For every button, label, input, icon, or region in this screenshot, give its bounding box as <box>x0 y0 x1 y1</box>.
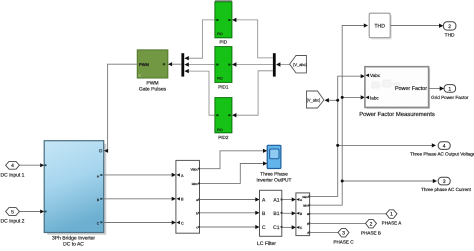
svg-text:B1: B1 <box>273 211 279 217</box>
svg-text:1: 1 <box>448 87 451 93</box>
wire: block2 Iabc up (V2) to THD, branches to PF Iabc and outport 3 <box>310 26 434 206</box>
wire: From V_abc to demux <box>280 64 290 66</box>
block: Three-Phase V-I Measurement 2 <box>296 193 310 236</box>
svg-text:THD: THD <box>445 33 455 39</box>
svg-text:Inverter OutPUT: Inverter OutPUT <box>257 178 292 184</box>
svg-text:2: 2 <box>448 24 451 30</box>
svg-text:a: a <box>196 198 198 202</box>
demux (black bar) <box>273 53 276 76</box>
svg-text:1: 1 <box>390 212 393 218</box>
svg-text:5: 5 <box>11 209 14 215</box>
junction dots on V2 <box>341 96 344 99</box>
block: PWM Gate Pulses <box>137 50 168 93</box>
svg-text:Gate Pulses: Gate Pulses <box>139 87 167 93</box>
svg-text:LC Filter: LC Filter <box>257 241 276 247</box>
block: Power Factor Measurements <box>359 67 435 119</box>
svg-text:Iabc: Iabc <box>303 204 309 208</box>
block: THD <box>369 13 392 39</box>
wire: THD to outport 2 <box>390 25 439 27</box>
svg-text:B: B <box>97 198 99 202</box>
outport hexagon 1 (PHASE A) <box>382 210 403 226</box>
wires: inverter A,B,C to measurement block 1 <box>104 175 173 223</box>
svg-text:PID: PID <box>217 32 223 36</box>
svg-text:C: C <box>181 221 184 225</box>
svg-text:Three phase AC Current: Three phase AC Current <box>421 187 472 192</box>
wire: PID2 out to mux in 3 <box>188 71 215 115</box>
svg-text:Vabc: Vabc <box>370 73 381 78</box>
wire: PID out to mux in 1 <box>188 20 215 58</box>
svg-text:PID1: PID1 <box>218 85 229 90</box>
svg-text:[V_abc]: [V_abc] <box>307 98 321 103</box>
wires: block2 a,b,c to phase hexagons <box>310 214 387 233</box>
svg-text:3: 3 <box>443 179 446 185</box>
svg-text:PID2: PID2 <box>218 135 229 140</box>
svg-text:4: 4 <box>443 144 446 150</box>
wire: Vabc branch to Goto tag <box>328 99 338 101</box>
wire: demux out1 to PID input <box>236 20 273 58</box>
wire: mux output to PWM input <box>171 63 181 65</box>
wires: block1 a,b,c to LC Filter <box>200 200 257 228</box>
block: LC Filter <box>257 190 283 247</box>
block: Three-Phase V-I Measurement 1 <box>176 160 200 233</box>
svg-text:Power Factor Measurements: Power Factor Measurements <box>359 111 435 118</box>
outport 1 (Grid Power Factor) <box>431 85 469 101</box>
Goto tag [V_abc] <box>307 91 324 108</box>
svg-text:A1: A1 <box>273 198 279 204</box>
outport hexagon 3 (PHASE C) <box>333 228 354 244</box>
svg-text:PID: PID <box>217 128 223 132</box>
svg-text:2: 2 <box>370 221 373 227</box>
svg-text:PID: PID <box>217 77 223 81</box>
svg-text:THD: THD <box>374 24 385 30</box>
svg-text:DC Input 1: DC Input 1 <box>1 172 25 178</box>
block: PID1 <box>215 47 232 90</box>
svg-text:4: 4 <box>11 163 14 169</box>
wire: DC Input 2 to inverter <box>19 211 41 213</box>
outport hexagon 2 (PHASE B) <box>361 219 381 235</box>
svg-text:3: 3 <box>342 230 345 236</box>
junction dots on V1 <box>336 99 339 102</box>
inport hexagon 5 (DC Input 2) <box>1 208 25 225</box>
outport 3 (Three phase AC Current) <box>421 177 472 192</box>
wire: PF to outport 1 <box>429 88 440 90</box>
wire: PWM output to inverter g port <box>106 64 137 151</box>
svg-text:Iabc: Iabc <box>192 182 199 186</box>
svg-text:PID: PID <box>219 40 227 45</box>
svg-text:PHASE C: PHASE C <box>333 239 354 244</box>
svg-text:Three Phase: Three Phase <box>260 172 288 178</box>
wire: block1 Vabc to scope in1 <box>200 151 264 169</box>
outport 4 (Three Phase AC Output Voltages) <box>410 142 474 157</box>
svg-text:Three Phase AC Output Voltages: Three Phase AC Output Voltages <box>410 152 474 157</box>
svg-text:C1: C1 <box>273 225 280 231</box>
svg-text:Power Factor: Power Factor <box>395 86 427 92</box>
wire: DC Input 1 to inverter <box>19 164 41 166</box>
svg-text:c: c <box>196 226 198 230</box>
svg-text:B: B <box>300 212 302 216</box>
wire: block1 Iabc to scope in2 <box>200 164 264 184</box>
wire: PID1 out to mux in 2 <box>188 64 215 66</box>
mux (black bar) <box>181 53 184 76</box>
block: 3Ph Bridge Inverter DC to AC <box>44 141 106 248</box>
block: PID <box>215 0 232 45</box>
svg-text:Vabc: Vabc <box>191 167 199 171</box>
svg-text:b: b <box>196 211 198 215</box>
svg-text:Grid Power Factor: Grid Power Factor <box>431 95 469 100</box>
outport 2 (THD) <box>443 22 456 39</box>
svg-text:Vabc: Vabc <box>302 195 309 199</box>
svg-text:PHASE A: PHASE A <box>382 221 403 226</box>
svg-text:C: C <box>262 225 266 231</box>
svg-text:[V_abc]: [V_abc] <box>293 62 307 67</box>
svg-text:PHASE B: PHASE B <box>361 230 381 235</box>
From tag [V_abc] <box>290 56 307 73</box>
wires: LC Filter to measurement block 2 <box>282 200 293 228</box>
wire: demux out3 to PID2 input <box>236 71 273 115</box>
svg-text:PWM: PWM <box>139 62 149 67</box>
inport hexagon 4 (DC Input 1) <box>1 161 25 178</box>
block: PID2 <box>215 98 232 140</box>
svg-text:DC to AC: DC to AC <box>63 242 84 248</box>
svg-text:DC Input 2: DC Input 2 <box>1 219 25 225</box>
wire: block2 Vabc up (V1) to PF Vabc, branches to outport 4 and Goto tag <box>310 76 433 196</box>
wire: demux out2 to PID1 input <box>236 64 273 66</box>
svg-text:Iabc: Iabc <box>370 95 379 100</box>
scope: Three Phase Inverter OutPUT <box>257 145 292 183</box>
